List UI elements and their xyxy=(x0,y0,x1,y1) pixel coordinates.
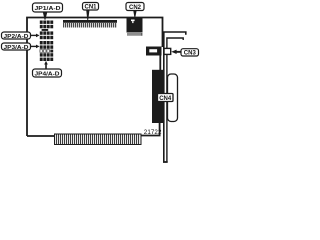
svg-text:JP1/A-D: JP1/A-D xyxy=(35,6,61,12)
label CN1 xyxy=(83,3,99,11)
CN4 external shell xyxy=(168,74,178,122)
pointer JP1 xyxy=(43,12,48,20)
jumper block JP4 xyxy=(40,53,53,61)
pointer CN2 xyxy=(133,11,136,17)
label JP2/A-D xyxy=(2,32,31,40)
label JP4/A-D xyxy=(33,69,62,77)
jumper cap between JP1/JP2 xyxy=(42,29,49,31)
label JP1/A-D xyxy=(33,3,63,12)
label CN4 xyxy=(158,94,174,103)
svg-text:JP3/A-D: JP3/A-D xyxy=(4,45,29,51)
pointer JP2 xyxy=(31,34,40,38)
pointer JP3 xyxy=(31,45,40,49)
svg-text:CN1: CN1 xyxy=(84,5,97,11)
label CN2 xyxy=(126,3,144,12)
label CN3 xyxy=(181,49,199,57)
connector CN2 xyxy=(127,17,143,36)
jumper block JP1 xyxy=(40,21,53,29)
svg-text:CN3: CN3 xyxy=(184,51,197,57)
pointer CN3 xyxy=(171,50,181,54)
label JP3/A-D xyxy=(2,43,31,51)
svg-text:JP2/A-D: JP2/A-D xyxy=(4,34,29,40)
pin row (open pins) between JP3/JP4 xyxy=(40,50,53,53)
svg-text:JP4/A-D: JP4/A-D xyxy=(35,71,60,77)
connector CN3 (through bracket) xyxy=(146,47,171,56)
pointer CN1 xyxy=(86,10,89,20)
edge connector (gold fingers) xyxy=(55,134,142,145)
svg-text:21722: 21722 xyxy=(144,129,162,136)
connector CN4 (black body) xyxy=(152,70,163,123)
connector CN1 (header comb) xyxy=(63,20,117,28)
svg-text:CN4: CN4 xyxy=(159,96,172,102)
jumper block JP3 xyxy=(40,41,53,49)
svg-text:CN2: CN2 xyxy=(129,5,142,11)
bracket xyxy=(163,32,186,162)
pointer JP4 xyxy=(44,61,48,69)
board outline xyxy=(27,18,163,137)
jumper block JP2 xyxy=(40,31,53,39)
